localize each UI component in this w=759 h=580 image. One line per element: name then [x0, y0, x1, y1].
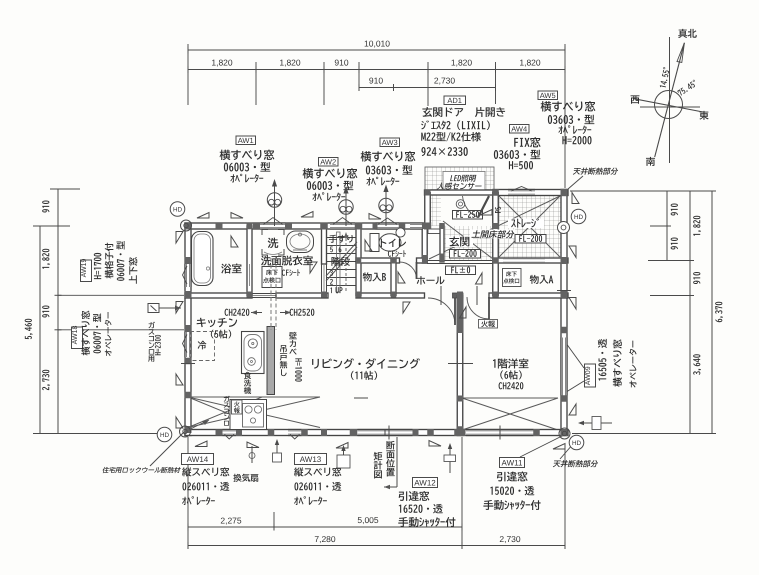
window AW3 — [376, 223, 400, 229]
right dimension extension lines — [570, 190, 716, 192]
wall stairs-toilet — [356, 226, 361, 296]
window AW18 — [185, 332, 191, 358]
living door — [428, 298, 455, 325]
label AW13 box — [295, 454, 327, 465]
svg-text:1,820: 1,820 — [519, 58, 541, 68]
wall posts right — [561, 189, 568, 196]
FL level storage — [515, 235, 546, 244]
canopy sensor text — [437, 183, 483, 190]
window mark AW18 — [183, 335, 188, 353]
label AW3 text — [361, 151, 416, 162]
svg-text:AW18: AW18 — [72, 325, 79, 344]
svg-text:AW4: AW4 — [511, 125, 527, 134]
window AW12 sliding — [358, 430, 413, 436]
window AW9 — [561, 338, 567, 396]
compass label west — [631, 95, 640, 103]
bath door — [246, 262, 248, 288]
brace triangles top — [197, 213, 209, 219]
compass horizontal axis — [640, 106, 700, 108]
svg-text:1,820: 1,820 — [451, 58, 473, 68]
wall toilet-corridor — [422, 226, 427, 263]
washing machine — [262, 230, 268, 236]
svg-text:AD1: AD1 — [447, 96, 462, 105]
mid wall bath-kitchen — [185, 293, 252, 298]
bathtub — [192, 232, 214, 286]
window mark AW13 — [290, 435, 300, 440]
label AW09 text — [598, 339, 607, 381]
window mark AW3 — [378, 218, 397, 225]
window AW1 — [260, 223, 286, 229]
wall posts top — [185, 223, 192, 230]
wall posts left — [185, 257, 192, 264]
window AW19 — [185, 264, 191, 288]
svg-text:HD: HD — [160, 432, 170, 439]
stairs break line — [326, 242, 357, 276]
FL level hall — [446, 266, 476, 275]
outer wall top — [185, 223, 431, 229]
genkan agarikamachi — [440, 226, 444, 262]
svg-text:AW12: AW12 — [414, 479, 436, 488]
corner anchor bottom-left — [180, 426, 191, 437]
entrance door AD1 — [478, 196, 489, 218]
compass label south — [646, 157, 655, 166]
svg-text:AW3: AW3 — [382, 138, 398, 147]
porch top wall — [425, 190, 499, 195]
stairs labels — [329, 235, 353, 243]
dimension extension lines top — [187, 44, 189, 105]
window AW11 sliding — [466, 430, 534, 436]
left dimension extension lines — [33, 225, 70, 227]
compass circle — [655, 91, 683, 119]
svg-text:AW11: AW11 — [502, 459, 523, 468]
window AW4 fix — [410, 223, 423, 229]
bottom dimension extension lines — [187, 437, 189, 548]
ceiling boundary dashed lines — [270, 258, 272, 330]
window mark AW19 — [183, 266, 188, 284]
stairs up arrow — [345, 235, 347, 291]
outer wall bottom — [185, 430, 568, 436]
svg-text:910: 910 — [334, 58, 348, 68]
corner anchor top-left — [181, 220, 192, 231]
wall toilet bottom — [356, 258, 400, 263]
compass label east — [699, 111, 708, 120]
window mark AW2 — [333, 218, 352, 225]
mid wall hall-living — [356, 293, 425, 298]
ceiling insulation note top — [573, 168, 619, 175]
label AW09 box — [585, 364, 596, 387]
storage top wall — [493, 190, 568, 196]
living dining label — [312, 358, 420, 368]
canopy LED light text — [450, 175, 476, 182]
left dimension 5,460 — [39, 226, 41, 434]
bedroom label — [493, 358, 529, 368]
operator symbol AW3 — [385, 213, 387, 227]
right dimension 1,820/910/3,640 — [689, 191, 691, 434]
window AW13 — [288, 430, 302, 436]
kitchen label — [197, 318, 238, 327]
genkan step line — [427, 260, 496, 262]
window AW2 — [330, 223, 355, 229]
anchor right wall — [558, 222, 570, 234]
svg-text:10,010: 10,010 — [364, 39, 390, 49]
wall bath-wash — [247, 226, 252, 296]
svg-text:1,820: 1,820 — [211, 58, 233, 68]
svg-text:2,730: 2,730 — [434, 76, 456, 86]
label AW13 text — [294, 467, 341, 476]
gas outlet label — [148, 304, 159, 313]
bath room label — [221, 263, 241, 273]
mid wall wash-kitchen door — [252, 293, 276, 295]
floor brace area bedroom — [462, 397, 558, 399]
kitchen half wall — [267, 327, 275, 395]
genkan doma hatch — [443, 226, 496, 261]
ceiling insulation note bottom — [553, 460, 599, 467]
module tick marks — [440, 286, 442, 305]
wall posts interior — [247, 223, 253, 230]
right dimension 910/910 — [666, 191, 668, 261]
mid wall post between doors — [453, 293, 464, 298]
svg-text:910: 910 — [369, 76, 383, 86]
genkan label — [446, 237, 473, 248]
closet B label — [363, 272, 386, 281]
fridge — [190, 332, 215, 361]
label AW14 box — [182, 454, 214, 465]
label AW5 text — [541, 101, 596, 112]
brace triangles interior — [460, 307, 467, 318]
ceiling height note living — [290, 309, 315, 316]
vent arrow bottom — [276, 441, 278, 453]
svg-text:AW13: AW13 — [300, 455, 322, 464]
wall posts bottom — [216, 430, 223, 436]
toilet — [370, 234, 379, 252]
svg-text:AW2: AW2 — [320, 158, 336, 167]
closet A label — [530, 275, 554, 284]
label AW19 text — [94, 253, 102, 279]
toilet door arc — [400, 262, 417, 279]
label AW4 text — [514, 137, 540, 147]
label AW1 text — [220, 150, 275, 161]
wall living-bedroom dark segment — [457, 295, 463, 330]
window mark AW5 — [511, 187, 532, 192]
wall insulation note — [102, 467, 181, 473]
svg-text:HD: HD — [574, 214, 584, 221]
label AW18 text — [81, 311, 90, 356]
window AW5 — [508, 190, 535, 196]
bottom dimension 2,275/5,005 — [188, 526, 462, 528]
svg-text:1,820: 1,820 — [279, 58, 301, 68]
label AW12 box — [413, 478, 438, 488]
vent fan label — [233, 474, 258, 482]
label AW2 text — [303, 168, 358, 179]
hanging cabinet note — [280, 345, 287, 352]
bedroom door — [467, 297, 489, 319]
storage label — [508, 219, 544, 229]
operator symbol AW2 — [345, 214, 347, 226]
bottom dimension 7,280/2,730 — [188, 545, 565, 547]
label AW5 box — [538, 91, 558, 100]
shoe cabinet — [428, 229, 443, 234]
fire alarm hall — [479, 320, 498, 329]
stairs rail — [337, 232, 341, 292]
compass east-west line — [633, 99, 703, 113]
storage floor hatch — [499, 195, 562, 258]
section position note — [374, 452, 383, 461]
mid wall east segment — [489, 293, 568, 298]
vent arrow bedroom — [449, 445, 451, 473]
compass label true north — [678, 29, 697, 38]
compass north needle — [655, 43, 685, 157]
mid wall stairs-living — [276, 293, 328, 298]
brace triangles bottom — [195, 441, 207, 447]
label AW1 box — [236, 136, 256, 145]
washroom sliding door — [321, 264, 323, 293]
dimension row 1,820/1,820/910/1,820/1,820 — [188, 69, 565, 71]
svg-text:AW19: AW19 — [81, 258, 88, 277]
doma note — [470, 230, 515, 239]
holdown symbol top-left — [170, 202, 185, 217]
washroom label — [261, 255, 313, 265]
corner anchor bottom-right — [559, 428, 570, 439]
label AW4 box — [510, 125, 530, 134]
outer wall left — [185, 223, 191, 436]
label AW19 box — [81, 260, 92, 282]
label AW18 box — [72, 327, 83, 349]
floor brace area kitchen-living — [188, 396, 320, 398]
wall porch left — [425, 193, 431, 227]
holdown symbol bottom-left — [157, 427, 172, 442]
svg-text:2,730: 2,730 — [499, 534, 521, 544]
outer wall right — [561, 190, 567, 436]
FL level porch — [453, 211, 483, 220]
washbasin — [287, 231, 314, 253]
label AW11 leader — [520, 434, 566, 457]
svg-text:2,275: 2,275 — [220, 516, 242, 526]
svg-text:7,280: 7,280 — [314, 534, 336, 544]
floor access panel washroom — [262, 267, 282, 288]
stove counter — [230, 400, 267, 430]
doma diagonal lines — [429, 196, 560, 259]
window mark AW1 — [264, 218, 283, 225]
label AW09 leader — [563, 339, 584, 368]
dishwasher label — [244, 372, 251, 379]
brace triangles left wall — [176, 232, 183, 244]
fire alarm kitchen — [232, 400, 243, 414]
porch side hatch — [428, 195, 441, 226]
svg-text:AW14: AW14 — [187, 455, 209, 464]
supply vent bottom — [337, 455, 350, 468]
label AW2 box — [319, 158, 339, 167]
compass angle 75.45 — [677, 79, 698, 96]
label AW12 text — [399, 491, 430, 501]
toilet label — [381, 239, 406, 247]
label AD1 box — [444, 96, 466, 105]
right dimension 6,370 — [711, 191, 713, 434]
floor access panel closetA — [503, 269, 522, 287]
wall storage-hall — [493, 193, 499, 296]
svg-text:AW1: AW1 — [238, 136, 254, 145]
label AD1 text — [422, 107, 505, 117]
canopy label box — [443, 172, 485, 191]
svg-text:AW5: AW5 — [540, 91, 556, 100]
left dimension 910/1,820/910/2,730 — [57, 189, 59, 434]
wall wash-stairs — [322, 226, 327, 264]
wall closetB-hall — [391, 258, 396, 296]
operator symbol AW1 — [274, 207, 276, 226]
brace triangles right wall — [569, 246, 576, 258]
label AW3 box — [380, 138, 400, 147]
wall living-bedroom — [457, 296, 463, 436]
kitchen counter — [242, 332, 265, 374]
dimension line overall 10,010 — [188, 49, 565, 51]
svg-text:5,005: 5,005 — [357, 515, 379, 525]
holdown symbol bottom-right — [569, 435, 584, 450]
FL level genkan — [450, 250, 481, 259]
label AW11 box — [500, 458, 525, 468]
hall label — [417, 276, 445, 284]
window mark AW14 — [225, 435, 235, 440]
compass angle 14.55 — [659, 67, 670, 88]
compass vertical axis — [669, 37, 671, 163]
svg-text:HD: HD — [572, 440, 582, 447]
dimension row 910/2,730 — [359, 87, 496, 89]
svg-text:AW09: AW09 — [585, 366, 592, 385]
pipe space label — [495, 207, 501, 213]
wall storage bottom sliding door — [493, 258, 568, 263]
porch canopy hatch — [425, 167, 494, 193]
stairs treads — [327, 237, 356, 239]
window AW14 — [223, 430, 237, 436]
vent arrow right — [581, 422, 612, 424]
label AW14 text — [182, 467, 229, 476]
gas stove label — [224, 396, 230, 402]
label AW11 text — [497, 471, 528, 481]
ceiling height note kitchen — [225, 309, 250, 316]
holdown symbol top-right — [571, 209, 586, 224]
svg-text:HD: HD — [173, 206, 183, 213]
porch sensor — [456, 200, 465, 209]
